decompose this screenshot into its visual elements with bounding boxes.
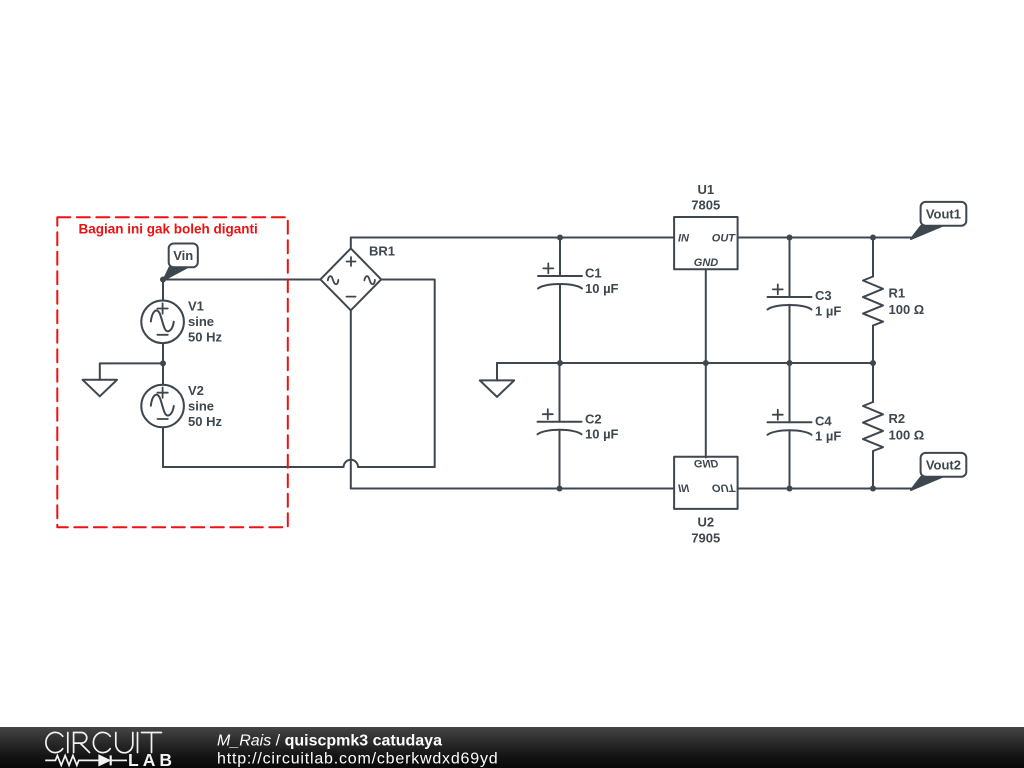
wire U1 GND stub bbox=[705, 269, 707, 363]
svg-text:LAB: LAB bbox=[128, 750, 176, 768]
capacitor C2 bbox=[538, 409, 619, 441]
svg-text:GND: GND bbox=[694, 457, 719, 469]
svg-text:Vout1: Vout1 bbox=[926, 206, 961, 221]
node dot Vin junction bbox=[160, 277, 166, 283]
wire V2 bottom with hop over BR1 bottom wire bbox=[163, 460, 435, 467]
svg-text:C3: C3 bbox=[815, 288, 832, 303]
svg-text:Bagian ini gak boleh diganti: Bagian ini gak boleh diganti bbox=[79, 222, 258, 237]
node dot R1 top bbox=[870, 235, 876, 241]
wire BR1 right to down corner bbox=[381, 280, 435, 468]
annotation red keep-out box bbox=[57, 217, 287, 527]
footer bar bbox=[0, 727, 1024, 768]
svg-text:10 µF: 10 µF bbox=[585, 427, 619, 442]
svg-text:10 µF: 10 µF bbox=[585, 281, 619, 296]
wire C1 vertical bbox=[559, 238, 561, 364]
bridge rectifier BR1 bbox=[320, 244, 395, 311]
svg-text:GND: GND bbox=[694, 257, 719, 269]
node dot V1/V2 ground junction bbox=[160, 360, 166, 366]
wire C4 vertical bbox=[789, 363, 791, 489]
svg-text:7805: 7805 bbox=[691, 197, 720, 212]
svg-text:V2: V2 bbox=[188, 383, 204, 398]
logo resistor+diode glyph bbox=[45, 755, 127, 765]
svg-text:U1: U1 bbox=[697, 182, 714, 197]
svg-text:100 Ω: 100 Ω bbox=[889, 302, 925, 317]
node dot U1/U2 GND bbox=[703, 360, 709, 366]
wire C3 vertical bbox=[789, 238, 791, 364]
regulator U2 7905 (vertically mirrored box) bbox=[674, 457, 738, 546]
wire top rail left (BR1 top to U1 IN) bbox=[351, 238, 674, 249]
node dot C3/C4 mid bbox=[787, 360, 793, 366]
svg-text:M_Rais / quiscpmk3 catudaya: M_Rais / quiscpmk3 catudaya bbox=[217, 733, 442, 750]
svg-text:Vout2: Vout2 bbox=[926, 457, 961, 472]
CircuitLab logo wordmark CIRCUIT (thin stroke letters) bbox=[46, 732, 162, 752]
node dot R2 bottom bbox=[870, 486, 876, 492]
svg-text:Vin: Vin bbox=[173, 248, 193, 263]
wire bottom rail left (to U2 IN) bbox=[351, 488, 674, 490]
svg-text:sine: sine bbox=[188, 314, 214, 329]
wire Vin to BR1 left bbox=[163, 279, 320, 281]
ground symbol middle bbox=[480, 363, 560, 397]
wire R1 stubs bbox=[872, 238, 874, 364]
voltage source V2 bbox=[141, 383, 222, 429]
capacitor C3 bbox=[768, 284, 842, 318]
svg-text:OUT: OUT bbox=[712, 233, 737, 245]
svg-text:1 µF: 1 µF bbox=[815, 303, 841, 318]
wire V1 branch vertical bbox=[162, 280, 164, 468]
svg-text:50 Hz: 50 Hz bbox=[188, 330, 222, 345]
node dot C4 bottom bbox=[787, 486, 793, 492]
node label Vout2 bbox=[911, 453, 966, 490]
svg-text:50 Hz: 50 Hz bbox=[188, 414, 222, 429]
wire mid ground rail bbox=[497, 362, 873, 364]
wire bottom rail right (U2 OUT to Vout2) bbox=[738, 488, 912, 490]
node dot C3 top bbox=[787, 235, 793, 241]
svg-text:C4: C4 bbox=[815, 413, 832, 428]
node label Vin bbox=[164, 244, 198, 281]
node dot R1/R2 mid bbox=[870, 360, 876, 366]
capacitor C1 bbox=[538, 263, 619, 295]
ground symbol left bbox=[83, 363, 163, 396]
svg-text:7905: 7905 bbox=[691, 530, 720, 545]
resistor R2 bbox=[863, 402, 924, 451]
wire C2 vertical bbox=[559, 363, 561, 489]
wire U2 GND stub bbox=[705, 363, 707, 458]
svg-text:IN: IN bbox=[678, 233, 690, 245]
capacitor C4 bbox=[768, 410, 842, 444]
svg-text:IN: IN bbox=[678, 481, 690, 493]
wire BR1 bottom to bottom rail bbox=[350, 310, 352, 488]
svg-text:V1: V1 bbox=[188, 299, 204, 314]
wire R2 stubs bbox=[872, 363, 874, 489]
svg-text:1 µF: 1 µF bbox=[815, 429, 841, 444]
voltage source V1 bbox=[141, 299, 222, 345]
svg-text:U2: U2 bbox=[697, 515, 714, 530]
svg-text:R1: R1 bbox=[889, 286, 906, 301]
node dot C1 top bbox=[557, 235, 563, 241]
regulator U1 7805 bbox=[674, 182, 738, 269]
resistor R1 bbox=[863, 277, 924, 326]
wire top rail right (U1 OUT to Vout1) bbox=[738, 237, 912, 239]
svg-text:C2: C2 bbox=[585, 411, 602, 426]
svg-text:R2: R2 bbox=[889, 411, 906, 426]
svg-text:100 Ω: 100 Ω bbox=[889, 427, 925, 442]
node dot C2 bottom bbox=[557, 486, 563, 492]
svg-text:http://circuitlab.com/cberkwdx: http://circuitlab.com/cberkwdxd69yd bbox=[217, 751, 498, 768]
node label Vout1 bbox=[911, 202, 966, 239]
node dot C1/C2 mid bbox=[557, 360, 563, 366]
svg-text:C1: C1 bbox=[585, 266, 602, 281]
svg-text:OUT: OUT bbox=[712, 481, 737, 493]
svg-text:sine: sine bbox=[188, 398, 214, 413]
svg-text:BR1: BR1 bbox=[369, 244, 395, 259]
